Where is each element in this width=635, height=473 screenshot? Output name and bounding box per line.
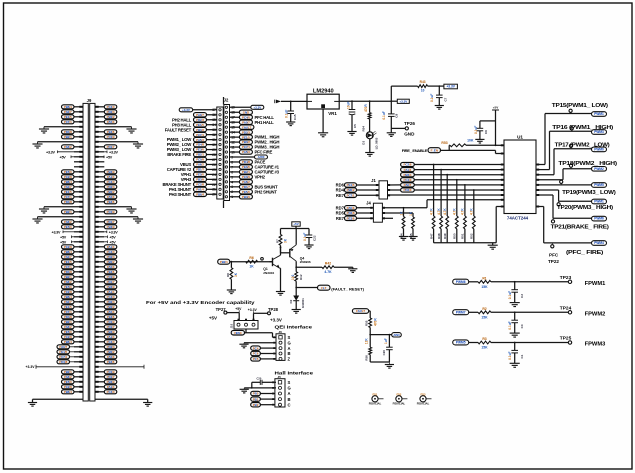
svg-text:PD1/7: PD1/7: [107, 145, 115, 149]
wire J4 pin5: [382, 212, 413, 214]
junction: [351, 100, 353, 102]
wire J2 pin 29: [207, 149, 217, 151]
svg-text:C1: C1: [520, 354, 524, 358]
J9 net tag left row 1: [62, 105, 75, 109]
J9 net tag left row 22: [62, 210, 75, 214]
junction: [231, 261, 233, 263]
svg-text:PB2/1: PB2/1: [242, 170, 250, 174]
svg-text:PC7/1: PC7/1: [64, 265, 72, 269]
J2 net tag pin 25: [194, 167, 207, 171]
J9 net tag left row 43: [62, 315, 75, 319]
svg-text:PD2/3: PD2/3: [107, 345, 115, 349]
wire U1 output to TP16 row: [536, 169, 550, 171]
J9 pin row 57: [74, 386, 83, 388]
J9 pin row 38: [74, 291, 83, 293]
svg-text:PH3 SHUNT: PH3 SHUNT: [169, 192, 192, 197]
J9 pin row 3: [74, 116, 83, 118]
svg-text:4.7K: 4.7K: [461, 208, 465, 215]
svg-text:R7: R7: [275, 239, 279, 243]
power rail +5V fault circuit: [281, 228, 310, 230]
J9 pin row 37: [74, 286, 83, 288]
ground: [227, 289, 236, 291]
svg-text:RE7: RE7: [336, 193, 345, 198]
J2 net tag pin 13: [239, 135, 252, 139]
ground: [292, 309, 301, 311]
J9 pin row 39: [74, 296, 83, 298]
wire J2 pin 20: [207, 193, 217, 195]
ground: [243, 388, 245, 389]
J9 net tag left row 34: [62, 270, 75, 274]
svg-text:TP22: TP22: [548, 259, 559, 264]
svg-text:PE1/5: PE1/5: [64, 190, 72, 194]
ground: [304, 244, 313, 246]
J9 pin row 55: [74, 376, 83, 378]
svg-text:PD4/8: PD4/8: [347, 211, 355, 215]
J9 net tag right row 16: [104, 180, 117, 184]
test point TP21: [552, 218, 554, 221]
J9 net tag right row 17: [104, 185, 117, 189]
buffer U1 74ACT244: [504, 140, 536, 214]
J2 net tag pin 18: [239, 110, 252, 114]
svg-text:VR1: VR1: [328, 111, 337, 116]
resistor R43 10: [418, 85, 428, 88]
power tag +5V: [492, 109, 499, 111]
wire D3 to ground: [369, 139, 371, 153]
ground: [387, 132, 396, 134]
J9 pin row 50: [74, 351, 83, 353]
svg-text:FPWM3: FPWM3: [585, 342, 606, 348]
svg-text:R52: R52: [470, 233, 474, 239]
wire J2 pin 18: [230, 111, 240, 113]
connector J1 body: [379, 181, 388, 199]
wire J2 pin 23: [207, 178, 217, 180]
J9 net tag right row 55: [104, 375, 117, 379]
LED D3: [369, 119, 371, 132]
svg-text:PWM1: PWM1: [594, 200, 604, 204]
net tag A/D0: [255, 155, 268, 159]
resistor R8 3K: [230, 262, 232, 268]
net tag QEI A: [251, 346, 261, 350]
svg-text:PB3/9: PB3/9: [107, 330, 115, 334]
J9 net tag left row 15: [62, 175, 75, 179]
test point on fault line: [261, 258, 264, 261]
capacitor C19 1uF: [388, 335, 390, 348]
wire R2 to TP24: [491, 311, 568, 313]
svg-text:R3: R3: [482, 337, 486, 341]
svg-text:PC0/9: PC0/9: [107, 210, 115, 214]
wire J2 top stem: [223, 97, 225, 105]
wire bus line 4 to U1: [414, 179, 504, 181]
J9 pin row 52: [74, 361, 83, 363]
capacitor C2 0.1uF: [514, 282, 516, 290]
test point TP15: [570, 111, 572, 114]
J9 net tag right row 33: [104, 265, 117, 269]
diode D2 1N4001: [295, 288, 297, 296]
svg-text:PWM4: PWM4: [594, 241, 604, 245]
net tag Hall A: [251, 391, 261, 395]
test point TP18: [570, 166, 572, 169]
svg-text:J4: J4: [366, 201, 371, 206]
wire R3 to TP25: [491, 342, 568, 344]
svg-text:+5V: +5V: [209, 315, 217, 320]
net tag Hall B: [251, 397, 261, 401]
net tag bus input 2: [401, 168, 415, 172]
svg-text:PWM3: PWM3: [594, 130, 604, 134]
J9 net tag left row 39: [62, 295, 75, 299]
svg-text:PB2/1: PB2/1: [220, 260, 228, 264]
svg-text:PA6/2: PA6/2: [64, 280, 72, 284]
svg-text:PC4/0: PC4/0: [107, 250, 115, 254]
svg-text:J2: J2: [224, 98, 229, 103]
svg-text:PA0/7: PA0/7: [64, 255, 72, 259]
net tag +3.3V: [251, 105, 264, 109]
J2 net tag pin 20: [194, 192, 207, 196]
svg-text:PE1/5: PE1/5: [242, 135, 250, 139]
net tag RE7: [345, 193, 357, 197]
J2 net tag pin 35: [194, 118, 207, 122]
svg-text:470R: 470R: [364, 104, 368, 112]
connector J4 body: [373, 203, 382, 222]
J9 net tag left row 40: [62, 300, 75, 304]
svg-text:PE3/6: PE3/6: [107, 315, 115, 319]
ground: [143, 402, 152, 404]
J9 net tag right row 37: [104, 285, 117, 289]
net tag PWM2: [592, 167, 607, 172]
ground: [137, 217, 139, 219]
svg-text:100: 100: [291, 274, 295, 280]
svg-text:PA0/7: PA0/7: [64, 185, 72, 189]
wire +3.3V riser to R43: [390, 86, 392, 101]
svg-text:G: G: [288, 340, 291, 345]
J9 net tag right row 36: [104, 280, 117, 284]
J9 net tag left row 35: [62, 275, 75, 279]
J9 net tag right row 56: [104, 380, 117, 384]
svg-text:J6: J6: [279, 330, 283, 334]
svg-text:J1: J1: [371, 178, 376, 183]
J2 pin 11: [225, 146, 227, 148]
J9 pin row 36: [74, 281, 83, 283]
J9 net tag right row 43: [104, 315, 117, 319]
J9 pin row 16: [74, 181, 83, 183]
svg-text:PA6/2: PA6/2: [196, 163, 204, 167]
svg-text:C5: C5: [353, 124, 357, 128]
svg-text:PE5/0: PE5/0: [64, 380, 72, 384]
svg-text:PE5/0: PE5/0: [64, 330, 72, 334]
svg-text:R42: R42: [325, 262, 331, 266]
J9 net tag left row 38: [62, 290, 75, 294]
wire J2 pin 12: [230, 141, 240, 143]
svg-text:(PFC_ FIRE): (PFC_ FIRE): [566, 250, 604, 256]
J9 net tag right row 45: [104, 325, 117, 329]
resistor R45 1K: [412, 213, 414, 217]
J2 net tag pin 30: [194, 142, 207, 146]
wire J2 pin 6: [230, 171, 240, 173]
net tag bus input 3: [401, 173, 415, 177]
svg-text:74ACT244: 74ACT244: [507, 215, 529, 220]
svg-text:RE7: RE7: [336, 216, 345, 221]
J9 net tag right row 2: [104, 110, 117, 114]
resistor R3 15K: [469, 342, 478, 344]
wire U1 output to TP22 row: [536, 206, 544, 208]
J2 net tag pin 22: [194, 182, 207, 186]
wire J2 pin 3: [230, 186, 240, 188]
wire pulldown ground rail: [434, 242, 497, 244]
svg-text:C19: C19: [382, 350, 386, 356]
wire +5V to VR1: [281, 100, 307, 102]
J9 net tag right row 7: [104, 135, 117, 139]
J9 net tag right row 57: [104, 385, 117, 389]
J2 pin 2: [225, 191, 227, 193]
J9 net tag left row 44: [62, 320, 75, 324]
svg-text:PC0/9: PC0/9: [242, 175, 250, 179]
svg-text:R56: R56: [365, 355, 369, 361]
resistor R7 3K: [280, 229, 282, 235]
wire J2 pin 31: [207, 139, 217, 141]
J9 net tag left row 24: [62, 220, 75, 224]
svg-text:PE3/6: PE3/6: [196, 148, 204, 152]
svg-text:F_EN: F_EN: [431, 148, 438, 152]
J9 net tag left row 3: [62, 115, 75, 119]
svg-text:+5V: +5V: [109, 240, 116, 244]
transistor Q1 2N3904: [270, 261, 273, 263]
net tag PWM7: [453, 310, 469, 315]
wire U1 ground pin: [496, 206, 504, 208]
ground: [510, 362, 520, 364]
test point TP19: [560, 182, 562, 185]
svg-text:+3.3V: +3.3V: [253, 105, 261, 109]
svg-text:PD4/8: PD4/8: [64, 270, 72, 274]
svg-text:C7: C7: [443, 97, 447, 101]
svg-text:R1: R1: [482, 276, 486, 280]
svg-text:R6: R6: [249, 256, 253, 260]
net tag FAULT: [352, 309, 368, 314]
junction: [251, 387, 253, 389]
J9 pin row 10: [74, 151, 83, 153]
wire J1 pin4 to tag5: [388, 184, 401, 186]
J9 pin row 2: [74, 111, 83, 113]
J9 net tag left row 56: [62, 380, 75, 384]
J2 net tag pin 7: [239, 165, 252, 169]
J2 pin 29: [219, 148, 221, 150]
J9 pin row 43: [74, 316, 83, 318]
svg-text:GND: GND: [404, 131, 415, 136]
J9 net tag left row 31: [62, 255, 75, 259]
svg-text:TP21(BRAKE_ FIRE): TP21(BRAKE_ FIRE): [551, 224, 610, 230]
J9 pin row 41: [74, 306, 83, 308]
J2 net tag pin 2: [239, 190, 252, 194]
wire U1 output to TP19 row: [536, 184, 592, 186]
wire bus line 7 (J1) to U1: [388, 194, 505, 196]
svg-text:PC4/0: PC4/0: [242, 115, 250, 119]
svg-text:PC0/9: PC0/9: [107, 320, 115, 324]
svg-text:PB2/1: PB2/1: [64, 370, 72, 374]
J9 pin row 48: [74, 341, 83, 343]
wire U1 output to TP21 row: [536, 194, 553, 196]
svg-text:TP25: TP25: [560, 336, 572, 342]
J5 pin 2: [279, 386, 282, 389]
test point TP25: [568, 341, 571, 344]
svg-text:15K: 15K: [481, 285, 488, 289]
svg-text:PA5/3: PA5/3: [107, 195, 115, 199]
svg-text:PB0/2: PB0/2: [107, 190, 115, 194]
svg-text:D2: D2: [289, 299, 293, 303]
J9 ground rail row 8: [38, 141, 84, 143]
wire J2 pin 16: [230, 121, 240, 123]
wire: [260, 358, 276, 360]
J2 pin 16: [225, 121, 227, 123]
svg-text:C22: C22: [312, 235, 316, 241]
svg-text:PC7/1: PC7/1: [64, 195, 72, 199]
svg-text:0.1uF: 0.1uF: [285, 110, 289, 118]
J9 pin row 27: [74, 236, 83, 238]
J9 net tag right row 24: [104, 220, 117, 224]
net tag RE7: [345, 216, 357, 220]
svg-text:PC4/0: PC4/0: [107, 180, 115, 184]
svg-text:PA1/4: PA1/4: [107, 290, 115, 294]
svg-text:FPWM1: FPWM1: [585, 281, 606, 287]
J9 net tag left row 16: [62, 180, 75, 184]
ground: [388, 362, 390, 365]
svg-text:0.1uF: 0.1uF: [303, 233, 307, 241]
svg-text:PC4/0: PC4/0: [107, 340, 115, 344]
wire QEI ground pin: [244, 342, 276, 344]
connector J5 Hall body: [275, 379, 285, 407]
wire J2 pin 25: [207, 168, 217, 170]
svg-text:R43: R43: [420, 80, 426, 84]
svg-text:+5V: +5V: [60, 235, 67, 239]
svg-text:PC4/0: PC4/0: [107, 105, 115, 109]
J9 net tag right row 52: [104, 360, 117, 364]
net tag PWM1: [592, 112, 607, 117]
wire fault input: [230, 261, 273, 263]
svg-text:PD4/8: PD4/8: [242, 160, 250, 164]
ground: [286, 121, 295, 123]
J9 net tag left row 18: [62, 190, 75, 194]
J9 ground rail row 5: [44, 126, 83, 128]
junction: [295, 266, 297, 268]
svg-text:PC2/8: PC2/8: [64, 385, 72, 389]
net tag PWM5: [592, 183, 607, 188]
svg-text:G: G: [288, 386, 291, 391]
J9 pin row 26: [74, 231, 83, 233]
svg-text:PWM2: PWM2: [594, 167, 604, 171]
J9 net tag right row 31: [104, 255, 117, 259]
svg-text:PD2/3: PD2/3: [196, 118, 204, 122]
J9 net tag left row 6: [62, 130, 75, 134]
wire J2 pin 8: [230, 161, 240, 163]
J9 net tag right row 3: [104, 115, 117, 119]
svg-text:PA0/7: PA0/7: [196, 113, 204, 117]
svg-text:+5V: +5V: [293, 222, 298, 226]
junction: [438, 85, 440, 87]
ground: [43, 127, 45, 129]
J2 pin 10: [225, 151, 227, 153]
svg-text:PE5/0: PE5/0: [64, 285, 72, 289]
J9 net tag left row 37: [62, 285, 75, 289]
junction: [514, 281, 516, 283]
J2 pin 4: [225, 181, 227, 183]
J2 net tag pin 12: [239, 140, 252, 144]
connector J9 body: [83, 103, 88, 401]
J2 net tag pin 8: [239, 160, 252, 164]
svg-text:TP15(PWM1_ LOW): TP15(PWM1_ LOW): [552, 103, 609, 109]
svg-text:PC7/1: PC7/1: [242, 145, 250, 149]
resistor R48 4.7K: [440, 169, 442, 171]
J2 net tag pin 16: [239, 120, 252, 124]
svg-text:C3: C3: [520, 324, 524, 328]
wire bus line 8 (J4) to U1: [427, 199, 504, 201]
net tag RD4: [345, 188, 357, 192]
wire RE7 to J4: [357, 217, 374, 219]
svg-text:PB6/4: PB6/4: [64, 250, 72, 254]
J9 net tag right row 1: [104, 105, 117, 109]
J2 net tag pin 33: [194, 127, 207, 131]
wire bus line 1 to U1: [414, 164, 504, 166]
svg-text:0.1uF: 0.1uF: [508, 321, 512, 329]
svg-text:LM2940: LM2940: [313, 89, 334, 95]
J2 pin 5: [225, 176, 227, 178]
svg-text:PA1/4: PA1/4: [404, 168, 412, 172]
svg-text:TP28: TP28: [268, 307, 279, 312]
J9 net tag right row 44: [104, 320, 117, 324]
resistor R1 15K: [469, 281, 478, 283]
svg-text:PA5/3: PA5/3: [107, 355, 115, 359]
wire J2 pin 13: [230, 136, 240, 138]
wire RD5 to J4: [357, 212, 374, 214]
svg-text:PA5/3: PA5/3: [242, 150, 250, 154]
net tag PWM1: [592, 199, 607, 204]
svg-text:PB2/1: PB2/1: [196, 153, 204, 157]
svg-text:1K: 1K: [249, 265, 254, 269]
wire Q4 collector node: [295, 261, 297, 267]
net tag +3.3V filtered: [439, 85, 444, 87]
wire J2 pin 34: [207, 124, 217, 126]
svg-text:C8: C8: [394, 114, 398, 118]
svg-text:PFC FIRE: PFC FIRE: [255, 150, 273, 155]
J9 net tag left row 57: [62, 385, 75, 389]
svg-text:10: 10: [421, 88, 425, 92]
junction: [280, 246, 282, 248]
svg-text:FPWM2: FPWM2: [585, 312, 606, 318]
junction: [369, 100, 371, 102]
svg-text:PB2: PB2: [253, 403, 259, 407]
svg-text:4.7K: 4.7K: [453, 208, 457, 215]
svg-text:C: C: [288, 402, 291, 407]
J9 pin row 11: [74, 156, 83, 158]
svg-text:PE1/5: PE1/5: [347, 183, 355, 187]
J9 net tag left row 41: [62, 305, 75, 309]
svg-text:A: A: [288, 391, 291, 396]
wire J2 pin9 to tag: [230, 156, 255, 158]
wire U1 output to TP20 row: [536, 189, 559, 191]
svg-text:PB6/4: PB6/4: [196, 192, 204, 196]
svg-text:PA1/4: PA1/4: [107, 245, 115, 249]
J9 net tag right row 47: [104, 335, 117, 339]
wire TP28 to J10: [254, 312, 268, 314]
ground: [318, 132, 328, 134]
capacitor C3 0.1uF: [514, 312, 516, 320]
J2 net tag pin 5: [239, 175, 252, 179]
J9 pin row 25: [74, 226, 83, 228]
ground: [347, 131, 356, 133]
net tag QEI Z: [251, 357, 261, 361]
J9 net tag right row 48: [104, 340, 117, 344]
J9 pin row 44: [74, 321, 83, 323]
J2 pin 28: [219, 153, 221, 155]
J2 pin 24: [219, 173, 221, 175]
net tag PWM5: [453, 340, 469, 345]
svg-text:PWM6: PWM6: [456, 280, 466, 284]
